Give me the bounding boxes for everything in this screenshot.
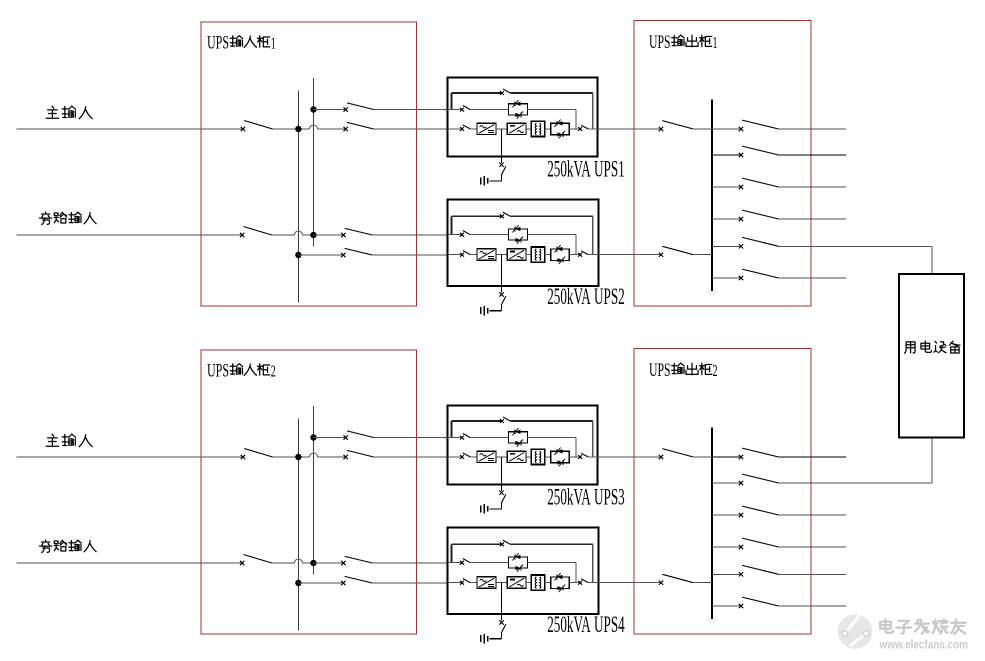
switch: static bypass input switch U4: [460, 561, 464, 565]
wire: infeed to bus: [693, 456, 712, 458]
wire: DC link: [496, 582, 507, 584]
wire: feeder branch 5: [779, 573, 846, 575]
bus: output busbar: [711, 428, 713, 619]
label: panglu shuru (bypass input): [39, 212, 96, 225]
wire: [545, 128, 551, 130]
wire: feeder branch 2: [779, 154, 846, 156]
switch: rectifier input switch U1: [460, 127, 464, 131]
wire: switch to static bypass module: [470, 437, 508, 439]
wire: static bypass module to join: [527, 109, 575, 111]
thyristor static switch (anti-parallel SCR pair) U3: [551, 451, 570, 462]
wire: branch 4 stub: [712, 546, 740, 548]
svg-text:2: 2: [271, 362, 276, 381]
wire: DC link: [496, 254, 507, 256]
thyristor static bypass module (anti-parallel SCR pair) U4: [509, 557, 528, 568]
wire: [526, 582, 531, 584]
switch QS: bypass input isolator: [240, 233, 244, 237]
wire: [526, 128, 531, 130]
op-amp? no: UPS unit U3 enclosure: [448, 406, 598, 485]
switch QF: feeder branch 2: [739, 481, 743, 485]
switch QS: feed to UPS3 rectifier: [344, 455, 348, 459]
wire: battery riser: [501, 255, 503, 293]
input cabinet 2 frame (red): [201, 350, 417, 634]
wire: to UPS1 input switch: [318, 128, 346, 130]
wire: infeed to bus: [693, 128, 712, 130]
switch QF: feeder branch 3: [739, 513, 743, 517]
thyristor static bypass module (anti-parallel SCR pair) U3: [509, 432, 528, 443]
svg-text:UPS: UPS: [207, 33, 229, 54]
bus: bypass vertical busbar (right): [313, 78, 315, 246]
switch QS: main feed to UPS2: [341, 253, 345, 257]
switch: UPS output switch U4: [578, 581, 582, 585]
transformer T3: [531, 449, 544, 464]
wire: [470, 254, 477, 256]
transformer T4: [531, 575, 544, 590]
wire: branch 6 stub: [712, 277, 740, 279]
node: main bus tap lower: [295, 252, 301, 258]
wire: [526, 254, 531, 256]
switch QF: feeder branch 5: [739, 244, 743, 248]
wire: static bypass module to join: [527, 234, 575, 236]
switch QF: UPS1 output infeed: [659, 127, 663, 131]
svg-text:1: 1: [271, 34, 276, 53]
switch QS: bypass feed to UPS1: [344, 107, 348, 111]
switch: battery disconnect U4: [499, 620, 503, 624]
wire: UPS output: [588, 254, 660, 256]
wire: feeder branch 3: [779, 514, 846, 516]
inverter (DC/AC converter) U2: [507, 249, 526, 260]
wire: main switch to bus: [273, 128, 310, 130]
load: yongdian shebei box: [899, 274, 964, 438]
switch: battery disconnect U2: [499, 292, 503, 296]
switch: rectifier input switch U4: [460, 581, 464, 585]
wire: load feed from output cabinet 1 (down): [931, 246, 933, 274]
rectifier (AC/DC converter) U1: [477, 123, 496, 134]
wire: [545, 582, 551, 584]
switch QS: main input isolator: [241, 455, 245, 459]
switch: rectifier input switch U2: [460, 253, 464, 257]
wire: maintenance bypass down-join vertical: [592, 421, 594, 457]
wire: UPS output: [588, 456, 660, 458]
wire: [470, 582, 477, 584]
op-amp? no: UPS unit U4 enclosure: [448, 528, 599, 615]
switch QF: feeder branch 1: [739, 455, 743, 459]
transformer T1: [531, 121, 544, 136]
switch: maintenance bypass switch U3: [500, 419, 504, 423]
node: main line / left bus junction: [295, 126, 301, 132]
wire: feeder branch 1: [779, 456, 846, 458]
svg-text:UPS: UPS: [207, 361, 229, 382]
switch QF: feeder branch 6: [739, 604, 743, 608]
wire: branch 4 stub: [712, 218, 740, 220]
bus: output busbar: [711, 100, 713, 291]
wire: [545, 254, 551, 256]
switch QF: feeder branch 2: [739, 153, 743, 157]
label: UPS shuchu gui 1: [649, 32, 718, 53]
watermark text: dianzifashaoyou: [880, 619, 965, 634]
wire: static bypass down-join vertical: [575, 235, 577, 255]
wire: static bypass input: [448, 234, 462, 236]
svg-text:1: 1: [713, 33, 718, 52]
wire: branch 6 stub: [712, 605, 740, 607]
wire: to UPS4 bypass input: [372, 562, 447, 564]
wire: battery lead: [501, 175, 503, 181]
inverter (DC/AC converter) U1: [507, 123, 526, 134]
wire: main input feeder: [17, 128, 243, 130]
switch: battery disconnect U1: [499, 163, 503, 167]
wire: feeder branch 6: [779, 605, 846, 607]
op-amp? no: UPS unit U2 enclosure: [448, 200, 599, 287]
wire: rectifier input: [448, 128, 462, 130]
svg-text:2: 2: [713, 361, 718, 380]
wire: battery lead: [501, 503, 503, 509]
wire jump over main bus: [294, 559, 302, 563]
wire: static bypass down-join vertical: [575, 563, 577, 583]
wire: maintenance bypass entrance vertical: [450, 216, 452, 234]
wire jump over bypass bus: [310, 125, 318, 129]
wire: rectifier input: [448, 456, 462, 458]
switch: UPS output switch U1: [578, 127, 582, 131]
node: bypass line / bypass bus junction: [310, 560, 316, 566]
wire: to UPS3 input switch: [318, 456, 346, 458]
wire: maintenance bypass rail: [451, 420, 501, 422]
battery GB1: [487, 178, 489, 184]
wire: main bus to switch: [298, 582, 342, 584]
wire: feeder branch 4: [779, 546, 846, 548]
rectifier (AC/DC converter) U4: [477, 577, 496, 588]
watermark logo circle: [838, 612, 873, 649]
switch QF: feeder branch 3: [739, 185, 743, 189]
wire: switch to static bypass module: [470, 562, 508, 564]
wire: to UPS3 bypass input: [374, 437, 448, 439]
label: zhu shuru (main input): [46, 106, 92, 119]
wire: feeder branch 1: [779, 128, 846, 130]
wire: static bypass down-join vertical: [575, 438, 577, 457]
wire: cabinet exit to UPS1 main input: [374, 128, 448, 130]
thyristor static switch (anti-parallel SCR pair) U1: [551, 123, 570, 134]
wire: static bypass input: [448, 562, 462, 564]
wire: jump to bypass bus: [302, 562, 313, 564]
wire: to output switch: [569, 582, 579, 584]
op-amp? no: UPS unit U1 enclosure: [448, 78, 598, 157]
thyristor static bypass module (anti-parallel SCR pair) U2: [509, 229, 528, 240]
switch QF: feeder branch 6: [739, 276, 743, 280]
wire: battery lead: [501, 305, 503, 311]
wire: DC link: [496, 456, 507, 458]
wire: main switch to bus: [273, 456, 310, 458]
wire: main bus to switch: [298, 254, 342, 256]
wire: UPS4 output to cabinet: [599, 582, 661, 584]
wire: battery lead: [501, 633, 503, 639]
switch QS: bypass feed to UPS2: [341, 233, 345, 237]
node: main bus tap lower: [295, 580, 301, 586]
wire: bypass input feeder: [17, 234, 242, 236]
switch: rectifier input switch U3: [460, 455, 464, 459]
wire: UPS output: [588, 128, 660, 130]
wire: [526, 456, 531, 458]
switch: maintenance bypass switch U4: [500, 542, 504, 546]
wire: infeed to bus: [693, 254, 712, 256]
wire: battery riser: [501, 583, 503, 621]
wire: battery riser: [501, 457, 503, 491]
wire: static bypass module to join: [527, 562, 575, 564]
svg-text:250kVA UPS3: 250kVA UPS3: [547, 484, 625, 509]
wire: infeed to bus: [693, 582, 712, 584]
bus: main vertical busbar (left): [297, 419, 299, 631]
wire: maintenance bypass down-join vertical: [592, 216, 594, 254]
wire: feeder branch 3: [779, 186, 846, 188]
wire: to UPS2 main input: [372, 254, 447, 256]
output cabinet 2 frame (red): [634, 349, 811, 635]
wire: to UPS4 main input: [372, 582, 447, 584]
wire: static bypass module to join: [527, 437, 575, 439]
wire: main input feeder: [17, 456, 243, 458]
switch: maintenance bypass switch U1: [500, 91, 504, 95]
thyristor static bypass module (anti-parallel SCR pair) U1: [509, 104, 528, 115]
wire: bypass input feeder: [17, 562, 242, 564]
svg-text:UPS: UPS: [649, 360, 671, 381]
switch QF: UPS2 output infeed: [659, 253, 663, 257]
wire: [545, 456, 551, 458]
wire: switch to static bypass module: [470, 109, 508, 111]
wire jump over main bus: [294, 231, 302, 235]
wire: bus to switch: [314, 562, 343, 564]
switch: UPS output switch U2: [578, 253, 582, 257]
node: bypass bus tap upper: [310, 434, 316, 440]
switch QF: feeder branch 5: [739, 572, 743, 576]
wire: feeder branch 5: [779, 245, 932, 247]
battery GB4: [487, 636, 489, 642]
switch QS: main feed to UPS4: [341, 581, 345, 585]
switch QS: bypass feed to UPS3: [344, 435, 348, 439]
wire: UPS2 output to cabinet: [599, 254, 661, 256]
thyristor static switch (anti-parallel SCR pair) U4: [551, 577, 570, 588]
inverter (DC/AC converter) U3: [507, 451, 526, 462]
switch QF: feeder branch 1: [739, 127, 743, 131]
bus: main vertical busbar (left): [297, 91, 299, 303]
bus: bypass vertical busbar (right): [313, 406, 315, 574]
node: bypass bus tap upper: [310, 106, 316, 112]
switch QF: UPS3 output infeed: [659, 455, 663, 459]
switch QF: feeder branch 4: [739, 545, 743, 549]
label: UPS shuru gui 1: [207, 33, 276, 54]
wire: rectifier input: [448, 582, 462, 584]
wire: feeder branch 2: [779, 482, 932, 484]
wire: branch 1 stub: [712, 456, 740, 458]
wire: maintenance bypass down-join vertical: [592, 93, 594, 129]
label: UPS shuru gui 2: [207, 361, 276, 382]
wire: load feed from output cabinet 2 (up): [931, 438, 933, 484]
node: main line / left bus junction: [295, 454, 301, 460]
label: UPS shuchu gui 2: [649, 360, 718, 381]
wire: maintenance bypass to output join: [510, 543, 593, 545]
wire: bus to switch: [314, 234, 343, 236]
wire: [470, 456, 477, 458]
label: yong dian she bei: [905, 341, 960, 353]
wire: bypass switch to jump: [272, 234, 294, 236]
wire: jump to bypass bus: [302, 234, 313, 236]
wire: bypass bus to switch: [314, 437, 346, 439]
transformer T2: [531, 247, 544, 262]
battery GB2: [487, 308, 489, 314]
switch: static bypass input switch U2: [460, 233, 464, 237]
inverter (DC/AC converter) U4: [507, 577, 526, 588]
wire: feeder branch 4: [779, 218, 846, 220]
label: zhu shuru (main input): [46, 434, 92, 447]
switch: battery disconnect U3: [499, 491, 503, 495]
wire: branch 2 stub: [712, 482, 740, 484]
switch QF: feeder branch 4: [739, 217, 743, 221]
node: bypass line / bypass bus junction: [310, 232, 316, 238]
output cabinet 1 frame (red): [634, 21, 811, 307]
wire: branch 3 stub: [712, 514, 740, 516]
wire: DC link: [496, 128, 507, 130]
wire jump over bypass bus: [310, 453, 318, 457]
wire: UPS output: [588, 582, 660, 584]
wire: maintenance bypass entrance vertical: [450, 544, 452, 562]
switch: maintenance bypass switch U2: [500, 214, 504, 218]
input cabinet 1 frame (red): [201, 22, 417, 306]
wire: maintenance bypass to output join: [510, 215, 593, 217]
rectifier (AC/DC converter) U3: [477, 451, 496, 462]
wire: maintenance bypass rail: [451, 543, 501, 545]
wire: maintenance bypass rail: [451, 92, 501, 94]
svg-text:250kVA UPS2: 250kVA UPS2: [547, 284, 625, 309]
svg-text:UPS: UPS: [649, 32, 671, 53]
wire: to output switch: [569, 456, 579, 458]
switch QF: UPS4 output infeed: [659, 581, 663, 585]
wire: to UPS1 bypass input: [374, 109, 448, 111]
wire: static bypass input: [448, 437, 462, 439]
switch QS: feed to UPS1 rectifier: [344, 127, 348, 131]
battery GB3: [487, 506, 489, 512]
switch: static bypass input switch U3: [460, 436, 464, 440]
wire: cabinet exit to UPS3 main input: [374, 456, 448, 458]
wire: maintenance bypass down-join vertical: [592, 544, 594, 582]
svg-text:250kVA UPS1: 250kVA UPS1: [547, 156, 625, 181]
wire: rectifier input: [448, 254, 462, 256]
switch: static bypass input switch U1: [460, 108, 464, 112]
wire: maintenance bypass to output join: [510, 420, 593, 422]
wire: branch 1 stub: [712, 128, 740, 130]
wire: static bypass input: [448, 109, 462, 111]
wire: to UPS2 bypass input: [372, 234, 447, 236]
wire: branch 5 stub: [712, 245, 740, 247]
switch: UPS output switch U3: [578, 455, 582, 459]
wire: maintenance bypass entrance vertical: [450, 421, 452, 438]
wire: maintenance bypass entrance vertical: [450, 93, 452, 110]
wire: battery riser: [501, 129, 503, 163]
label: panglu shuru (bypass input): [39, 540, 96, 553]
switch QS: main input isolator: [241, 127, 245, 131]
wire: bypass bus to switch: [314, 109, 346, 111]
svg-text:www.elecfans.com: www.elecfans.com: [879, 638, 968, 652]
wire: branch 2 stub: [712, 154, 740, 156]
svg-text:250kVA UPS4: 250kVA UPS4: [547, 612, 625, 637]
wire: feeder branch 6: [779, 277, 846, 279]
wire: maintenance bypass rail: [451, 215, 501, 217]
wire: to output switch: [569, 254, 579, 256]
wire: to output switch: [569, 128, 579, 130]
wire: branch 3 stub: [712, 186, 740, 188]
wire: switch to static bypass module: [470, 234, 508, 236]
wire: bypass switch to jump: [272, 562, 294, 564]
switch QS: bypass feed to UPS4: [341, 561, 345, 565]
wire: branch 5 stub: [712, 573, 740, 575]
thyristor static switch (anti-parallel SCR pair) U2: [551, 249, 570, 260]
rectifier (AC/DC converter) U2: [477, 249, 496, 260]
wire: maintenance bypass to output join: [510, 92, 593, 94]
wire: [470, 128, 477, 130]
wire: static bypass down-join vertical: [575, 110, 577, 129]
switch QS: bypass input isolator: [240, 561, 244, 565]
